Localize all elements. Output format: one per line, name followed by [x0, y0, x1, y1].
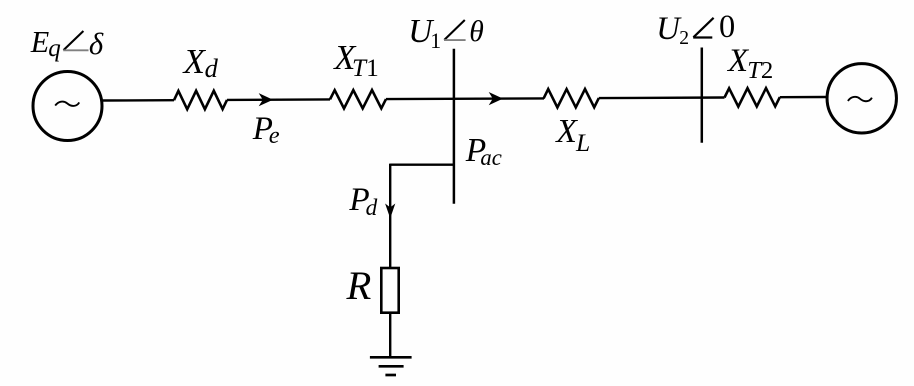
- label theta: [469, 18, 484, 48]
- wire resistor to ground: [389, 313, 391, 357]
- wire shunt branch down to resistor: [389, 164, 391, 268]
- resistor R (rectangle): [381, 268, 398, 313]
- generator G2 (right AC source): [827, 64, 896, 133]
- arrow after bus 1 (line power flow): [489, 92, 503, 105]
- reactance Xd (generator reactance zigzag): [174, 91, 227, 110]
- label X of XT1: [334, 41, 355, 76]
- label U of U1: [408, 15, 432, 49]
- label q subscript of Eq: [48, 36, 61, 61]
- label d subscript of Xd: [205, 55, 218, 81]
- label P of Pe: [253, 113, 273, 146]
- wire branch stub from bus U1 (horizontal): [390, 163, 454, 165]
- label 1 subscript of U1: [430, 31, 441, 53]
- generator G1 (left AC source): [33, 72, 102, 141]
- angle symbol in label U1 angle theta: [444, 20, 466, 40]
- label L subscript of XL: [576, 130, 590, 156]
- label T2 subscript of XT2: [747, 59, 773, 84]
- wire XT2 to G2: [780, 96, 826, 99]
- label ac subscript of Pac: [480, 147, 501, 170]
- reactance XT1 (transformer 1 zigzag): [330, 90, 386, 109]
- label U of U2: [656, 13, 680, 46]
- label e subscript of Pe: [269, 124, 280, 148]
- arrow Pe (power flow arrow): [259, 93, 273, 106]
- label E of Eq: [31, 27, 49, 57]
- label P of Pac: [466, 134, 486, 168]
- bus U1 (vertical bus bar): [453, 49, 456, 204]
- label d subscript of Pd: [366, 197, 378, 220]
- angle symbol in label U2 angle 0: [693, 18, 713, 38]
- wire Xd to XT1: [227, 98, 330, 101]
- wire XT1 to XL across bus 1: [386, 97, 544, 100]
- label T1 subscript of XT1: [352, 56, 379, 81]
- label delta: [89, 29, 103, 60]
- label X of XT2: [728, 45, 748, 78]
- ground symbol: [370, 357, 412, 375]
- wire XL to XT2 across bus 2: [599, 96, 725, 99]
- reactance XL (line reactance zigzag): [544, 89, 599, 108]
- label R: [347, 266, 372, 307]
- angle symbol in label Eq angle delta: [63, 31, 88, 50]
- label 0 of U2 angle 0: [719, 11, 735, 43]
- label X of Xd: [184, 44, 205, 79]
- arrow Pd (down arrow on shunt branch): [385, 204, 395, 219]
- label 2 subscript of U2: [679, 29, 689, 49]
- reactance XT2 (transformer 2 zigzag): [725, 88, 780, 107]
- wire G1 to Xd: [103, 99, 174, 102]
- label X of XL: [556, 115, 577, 149]
- label P of Pd: [349, 183, 369, 216]
- bus U2 (vertical bus bar): [701, 48, 704, 143]
